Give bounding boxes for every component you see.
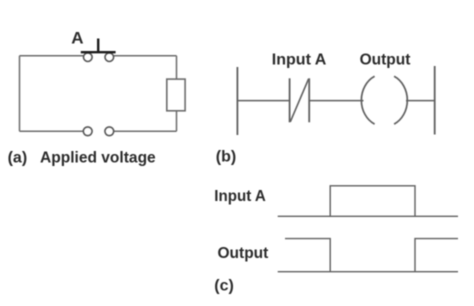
waveform: Input A pulse xyxy=(330,186,415,217)
svg-text:(b): (b) xyxy=(216,149,236,166)
waveform: Output rising edge and high segment right xyxy=(415,239,458,272)
waveform: Output high segment left with falling edge xyxy=(285,239,330,272)
push-button switch A: right contact circle xyxy=(105,53,114,62)
wire: circuit (a) right side above load xyxy=(176,56,178,79)
waveform: Input A baseline xyxy=(278,215,458,217)
NC contact Input A: left line xyxy=(289,78,291,122)
push-button switch A: contact bar xyxy=(81,51,116,53)
output coil: right arc xyxy=(394,76,407,124)
output terminal circle right xyxy=(105,127,114,136)
load resistor rectangle xyxy=(167,79,185,111)
svg-text:(a): (a) xyxy=(8,150,28,167)
svg-text:Output: Output xyxy=(218,245,269,262)
svg-text:Output: Output xyxy=(360,52,411,69)
svg-text:Input A: Input A xyxy=(214,188,266,205)
output terminal circle left xyxy=(83,127,92,136)
wire: circuit (a) left side xyxy=(19,56,21,132)
wire: circuit (a) bottom right segment xyxy=(114,130,177,132)
push-button switch A: actuator stem xyxy=(97,39,99,53)
NC contact Input A: right line xyxy=(308,78,310,122)
svg-text:(c): (c) xyxy=(214,278,234,295)
wire: circuit (a) top right segment xyxy=(114,55,177,57)
ladder right power rail xyxy=(434,66,436,135)
svg-text:Input A: Input A xyxy=(272,52,327,69)
wire: rung from contact to coil xyxy=(309,100,363,102)
ladder left power rail xyxy=(236,67,238,135)
wire: rung from coil to right rail xyxy=(406,100,435,102)
wire: circuit (a) right side below load xyxy=(176,111,178,132)
waveform: Output baseline xyxy=(278,271,458,273)
svg-text:Applied voltage: Applied voltage xyxy=(40,150,156,167)
svg-text:A: A xyxy=(71,29,83,48)
wire: rung from left rail to contact xyxy=(237,100,289,102)
wire: circuit (a) bottom left segment xyxy=(20,130,84,132)
output coil: left arc xyxy=(361,76,374,124)
NC contact Input A: slash xyxy=(290,79,308,122)
push-button switch A: left contact circle xyxy=(84,53,93,62)
wire: circuit (a) top left segment xyxy=(20,55,84,57)
